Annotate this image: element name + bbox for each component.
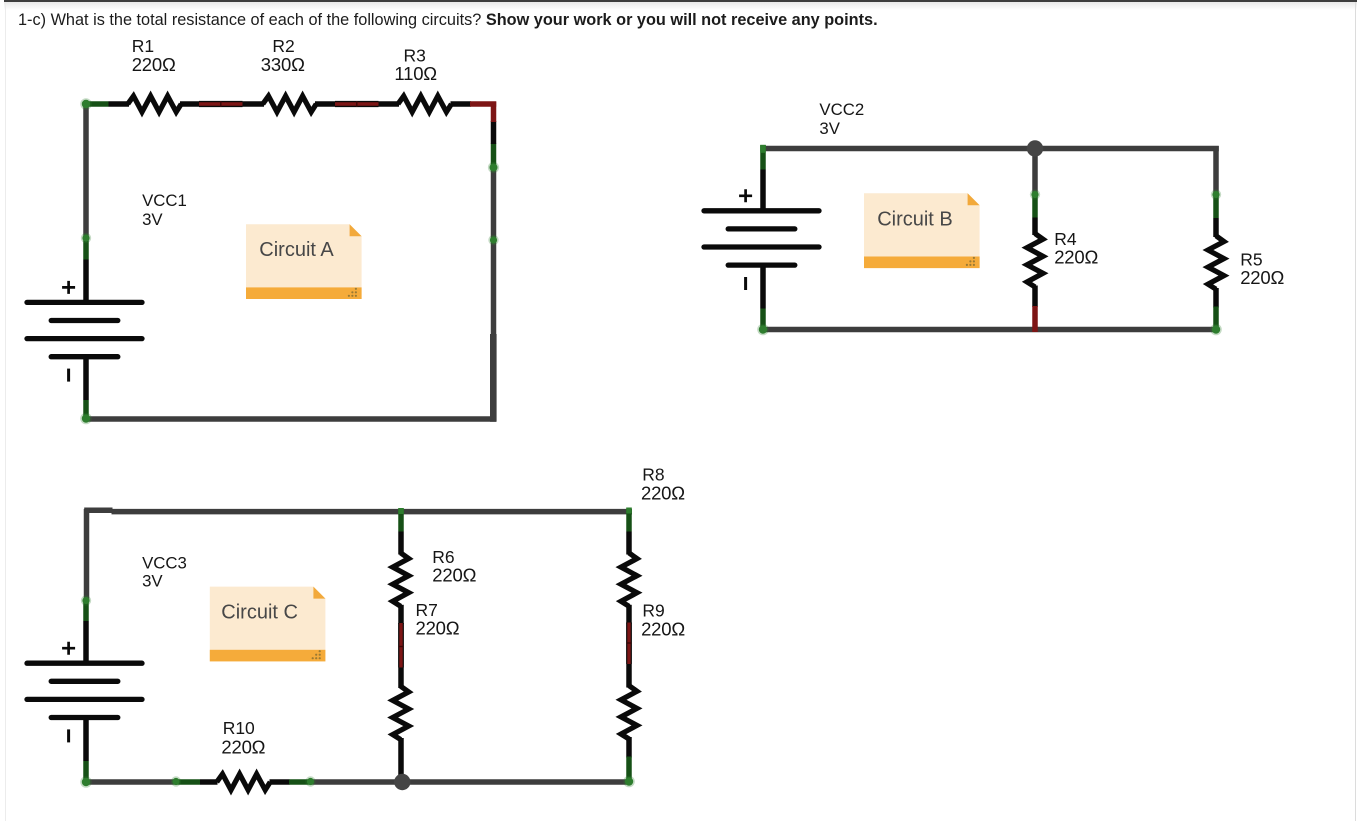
resistor R3 xyxy=(398,96,451,112)
battery VCC2 xyxy=(704,189,819,290)
note Circuit B xyxy=(864,193,980,268)
svg-text:3V: 3V xyxy=(142,210,163,229)
svg-text:VCC1: VCC1 xyxy=(142,191,187,210)
chrome right faint border xyxy=(1355,2,1356,821)
node tick B top-left xyxy=(760,145,766,153)
wire: C bottom gray right xyxy=(311,779,632,785)
resistor R2 xyxy=(263,96,316,112)
node dot A bottom-left xyxy=(82,414,90,422)
wire: C mid black to R6 xyxy=(398,532,404,555)
node dot C R10 right xyxy=(307,778,314,785)
svg-text:R10: R10 xyxy=(223,718,255,738)
resistor R6 xyxy=(393,553,409,606)
node dot B bottom-right xyxy=(1212,325,1220,333)
wire: C top gray xyxy=(84,507,112,513)
wire: B R4 black top lead xyxy=(1032,218,1038,236)
wire: A top red pair 2 xyxy=(335,102,379,107)
wire: A right vertical red top xyxy=(491,102,497,123)
resistor R5 xyxy=(1208,236,1224,289)
node tick C right top xyxy=(626,508,632,514)
wire: C right black R8-red xyxy=(626,605,632,624)
resistor R4 xyxy=(1027,234,1043,287)
node dot B R4 top xyxy=(1031,191,1038,198)
wire: C left green xyxy=(83,600,89,622)
wire: C bottom black lead R10 xyxy=(200,779,218,785)
wire: C bottom black after R10 xyxy=(270,779,290,785)
red pair dividers xyxy=(221,101,357,107)
wire: C bottom gray left xyxy=(84,779,178,785)
wire: A right vertical dark green xyxy=(491,144,497,170)
chrome top border xyxy=(4,0,1357,2)
svg-text:Circuit C: Circuit C xyxy=(221,601,298,623)
svg-text:Circuit B: Circuit B xyxy=(877,209,953,231)
node dot B R5 top xyxy=(1212,191,1219,198)
wire: A top black after R2 xyxy=(315,101,336,107)
wire: C mid branch green top xyxy=(398,509,404,532)
resistor R8 xyxy=(621,553,637,606)
wire: B bottom gray xyxy=(760,327,1219,333)
node dot A left battery top xyxy=(82,234,89,241)
svg-text:220Ω: 220Ω xyxy=(432,564,476,585)
svg-text:220Ω: 220Ω xyxy=(1054,246,1098,267)
wire: A top black lead to R3 xyxy=(379,101,400,107)
wire: B battery bottom green xyxy=(760,309,766,333)
svg-text:220Ω: 220Ω xyxy=(1240,267,1284,288)
wire: C mid black R6-red xyxy=(398,605,404,624)
wire: C right green bottom xyxy=(626,757,632,785)
wire: B battery top green tick xyxy=(760,145,766,170)
note Circuit A xyxy=(246,224,362,299)
wire: A bottom-left green segment xyxy=(83,400,89,422)
wire: A battery bottom black xyxy=(83,357,89,400)
wire: C mid red xyxy=(399,623,404,668)
battery VCC3 xyxy=(27,642,142,743)
wire: B R4 red bottom xyxy=(1032,306,1038,332)
black underlay for red pairs xyxy=(199,101,379,103)
wire: C battery bottom black xyxy=(83,718,89,762)
junction dot C xyxy=(394,774,410,790)
junction dot B xyxy=(1027,140,1043,156)
wire: C bottom green left of R10 xyxy=(176,779,200,785)
wire: B right green upper xyxy=(1213,193,1219,218)
node dot B battery bottom xyxy=(759,325,767,333)
wire: A top red to corner xyxy=(470,101,496,107)
svg-text:220Ω: 220Ω xyxy=(641,619,685,640)
wire: A top black between R1 and red xyxy=(180,101,200,107)
title question text xyxy=(18,11,878,30)
wire: A top black after R3 xyxy=(451,101,472,107)
svg-text:220Ω: 220Ω xyxy=(132,54,176,75)
node tick C mid top xyxy=(398,508,404,514)
wire: C mid black below R7 xyxy=(398,738,404,784)
svg-text:Circuit A: Circuit A xyxy=(259,239,334,261)
svg-text:330Ω: 330Ω xyxy=(261,54,305,75)
wire: C right vertical green top xyxy=(626,509,632,532)
battery VCC1 xyxy=(27,281,142,382)
note Circuit C xyxy=(210,587,326,662)
svg-text:220Ω: 220Ω xyxy=(416,618,460,639)
wire: A top black lead to R2 xyxy=(243,101,265,107)
svg-text:220Ω: 220Ω xyxy=(641,482,685,503)
node dot C bottom-left xyxy=(82,778,90,786)
wire: B battery top black xyxy=(760,170,766,212)
wire: C right black to R8 xyxy=(626,532,632,555)
svg-text:VCC3: VCC3 xyxy=(142,554,187,573)
wire: A left vertical gray xyxy=(83,101,89,237)
wire: A left vertical black to battery xyxy=(83,260,89,303)
wire: A bottom gray xyxy=(84,416,497,422)
svg-text:110Ω: 110Ω xyxy=(394,63,437,84)
wire: A top green start xyxy=(83,101,108,107)
wire: B R4 black bottom lead xyxy=(1032,286,1038,308)
resistor R10 xyxy=(217,774,270,790)
wire: C bottom green right of R10 xyxy=(289,779,312,785)
wire: B right green lower xyxy=(1213,307,1219,333)
wire: C left black to battery xyxy=(83,621,89,663)
wire: A right vertical black xyxy=(491,121,497,144)
resistor R7 xyxy=(393,686,409,739)
node dot A top-left xyxy=(82,100,90,108)
resistor R9 xyxy=(621,686,637,739)
wire: A left vertical green segment xyxy=(83,236,89,260)
svg-text:3V: 3V xyxy=(142,572,163,591)
resistor R1 xyxy=(128,96,181,112)
wire: C right black below R9 xyxy=(626,737,632,758)
wire: C battery bottom green xyxy=(83,761,89,784)
wire: B right vertical gray xyxy=(1213,146,1219,194)
wire: B right black bottom lead xyxy=(1213,288,1219,308)
wire: B right black top lead xyxy=(1213,218,1219,237)
node dot C left battery top xyxy=(82,597,89,604)
svg-text:VCC2: VCC2 xyxy=(819,100,864,119)
wire: B R4 green xyxy=(1032,193,1038,218)
wire: B battery bottom black xyxy=(760,266,766,309)
svg-text:3V: 3V xyxy=(819,119,840,138)
wire: A top black R1 lead xyxy=(109,101,130,107)
chrome left faint border xyxy=(5,2,6,821)
node dot C R10 left xyxy=(172,778,179,785)
wire: B top gray xyxy=(760,146,1219,152)
wire: B R4 branch gray xyxy=(1032,149,1038,195)
wire: A right vertical gray xyxy=(491,169,497,336)
wire: C right black to R9 xyxy=(626,664,632,688)
wire: A top red pair 1 xyxy=(199,102,243,107)
wire: C left vertical gray xyxy=(84,509,90,600)
node dot A right upper xyxy=(490,164,498,172)
wire: C mid black to R7 xyxy=(398,668,404,689)
node dot C bottom-right xyxy=(625,777,633,785)
svg-text:220Ω: 220Ω xyxy=(221,737,265,758)
svg-text:R9: R9 xyxy=(642,600,664,620)
node dot A right mid xyxy=(490,236,497,243)
wire: C right red xyxy=(627,623,632,665)
